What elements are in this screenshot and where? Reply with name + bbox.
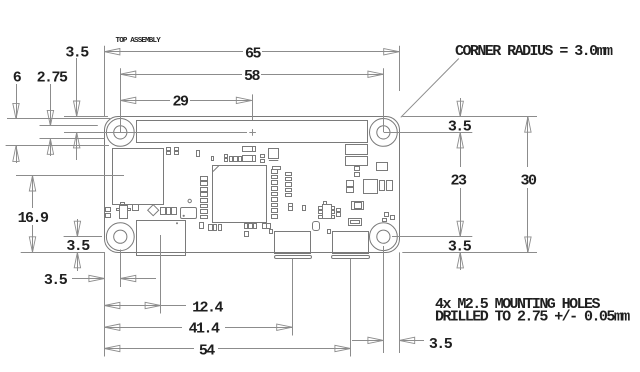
USB power connector flange (332, 256, 370, 259)
crystal X1 (352, 202, 364, 210)
dim 3.5 top-right upper arrow (460, 98, 462, 117)
extension line: left hole centre above board (120, 68, 122, 132)
capacitor pill (313, 222, 320, 231)
camera connector rects right of header (346, 145, 368, 155)
svg-text:6: 6 (13, 70, 22, 87)
extension line: board bottom edge, right (402, 252, 537, 254)
dim 12.4 line (104, 305, 160, 307)
extension line: SD slot 16.9 reference (16, 175, 124, 177)
right-hand component column parts (355, 167, 360, 171)
dim 65 line (104, 51, 243, 53)
svg-text:DRILLED TO 2.75 +/- 0.05mm: DRILLED TO 2.75 +/- 0.05mm (435, 308, 630, 325)
passives below header left (167, 148, 171, 151)
mounting hole top-left (M2.5, pad) (106, 118, 134, 146)
dim 16.9 line lower (32, 225, 34, 252)
extension line: bottom-right hole centre, right (392, 236, 472, 238)
dim 30 lower arrow (527, 188, 529, 252)
passive C near header (197, 151, 200, 157)
extension line: board bottom edge, left (21, 252, 105, 254)
small IC with pins below SD slot (120, 206, 128, 219)
svg-text:16.9: 16.9 (18, 210, 49, 227)
svg-text:29: 29 (173, 93, 189, 110)
extension line: bottom-left hole centre below board (120, 250, 122, 288)
extension line: 6mm pad bottom tangent (6, 145, 109, 147)
GPIO header centre line / left hole centre line (64, 132, 247, 134)
dim 41.4 line (104, 327, 182, 329)
dim 3.5 right-hole-to-bottom arrow (460, 252, 462, 270)
diamond component D1 (148, 205, 159, 216)
U3 pin-1 dot (183, 215, 185, 217)
dim 2.75 lower arrow (50, 139, 52, 156)
svg-text:65: 65 (245, 45, 261, 62)
svg-text:12.4: 12.4 (192, 299, 223, 316)
pads below SoC right (289, 204, 293, 207)
dim 3.5 left-hole-to-bottom upper arrow (77, 219, 79, 237)
extension line: board right edge above board (399, 46, 401, 91)
three pads row left-centre (161, 208, 166, 215)
svg-text:2.75: 2.75 (37, 70, 68, 87)
GPIO header J8 outline (137, 121, 368, 143)
tiny passives left of test IC (106, 208, 111, 212)
dim 3.5 left-hole-to-bottom lower arrow (77, 252, 79, 271)
HDMI pin-1 dot (176, 222, 178, 224)
svg-text:3.5: 3.5 (44, 272, 68, 289)
board centre mark + (249, 132, 256, 134)
dim 2.75 upper arrow (50, 84, 52, 126)
capacitors C above SoC (243, 147, 256, 152)
passive square below SD (133, 205, 139, 211)
extension line: 2.75 hole bottom tangent (40, 138, 105, 140)
extension line: board centre above board (252, 94, 254, 120)
svg-text:54: 54 (199, 343, 215, 360)
USB data connector flange (275, 256, 312, 259)
passive row above SoC (225, 155, 228, 158)
dim 23 lower arrow (460, 188, 462, 237)
dim 3.5 bottom-left line (72, 278, 104, 280)
USB power connector J11 body (333, 232, 369, 254)
svg-text:3.5: 3.5 (65, 44, 89, 61)
extension line: bottom-left hole centre (64, 236, 102, 238)
IC U3 left-centre (181, 208, 197, 219)
extension line: 2.75 hole top tangent (40, 125, 98, 127)
SoC right pin pads (272, 170, 278, 174)
component below crystal (349, 219, 362, 226)
passives below SoC (200, 223, 204, 229)
fiducial ring (188, 199, 191, 202)
extension line: USB data centre below board (292, 259, 294, 336)
component square below top-right hole (377, 163, 388, 171)
corner radius leader line (401, 59, 459, 118)
tiny part below pill (328, 230, 331, 234)
dim 3.5 bottom-right line (352, 340, 383, 342)
extension line: bottom-right hole centre below board (383, 246, 385, 353)
extension line: board left edge above board (104, 46, 106, 117)
extension line: right hole centre, right (384, 132, 472, 134)
SoC left pin pads (201, 177, 208, 181)
dim 58 line (120, 74, 242, 76)
mounting hole bottom-right (M2.5, pad) (370, 223, 398, 251)
SOT IC U4 with pins (323, 205, 332, 219)
mini HDMI connector J7 body (137, 221, 186, 256)
svg-text:3.5: 3.5 (66, 238, 90, 255)
tiny pair right of U4 (337, 209, 341, 212)
dim 23 upper arrow (460, 132, 462, 167)
dim 16.9 line upper (32, 176, 34, 209)
dim 54 line (104, 348, 194, 350)
svg-text:CORNER RADIUS = 3.0mm: CORNER RADIUS = 3.0mm (455, 43, 613, 60)
svg-text:23: 23 (451, 172, 467, 189)
extension line: 6mm pad top tangent (7, 118, 110, 120)
dim 3.5 top-left upper arrow (76, 58, 78, 117)
dim 6 upper arrow (16, 84, 18, 119)
extension line: board top edge, left (64, 116, 108, 118)
dim 3.5 top-left lower arrow (76, 132, 78, 160)
PCB board outline 65x30mm, corner radius 3.0mm (105, 117, 400, 253)
micro SD card slot (113, 149, 164, 205)
mounting hole bottom-left (M2.5, pad) (106, 223, 134, 251)
extension line: HDMI centre below board (160, 235, 162, 314)
svg-text:30: 30 (521, 172, 537, 189)
SoC pin-1 chamfer (213, 166, 219, 172)
extension line: board top edge, right (402, 116, 537, 118)
component row mid-right (347, 181, 354, 187)
extension line: right hole centre above board (383, 68, 385, 132)
dim 29 line (120, 100, 170, 102)
passive pair above SoC right (261, 155, 265, 158)
tiny parts near bottom-right hole (385, 213, 389, 217)
dim 30 upper arrow (527, 117, 529, 167)
component square top-right of SoC (269, 149, 279, 159)
passive R near SoC top-left (212, 157, 214, 161)
extension line: board right edge below board (399, 252, 401, 353)
extension line: USB power centre below board (350, 259, 352, 357)
svg-text:58: 58 (244, 68, 260, 85)
svg-text:41.4: 41.4 (189, 321, 220, 338)
wide passive right of SoC (273, 167, 281, 170)
svg-text:3.5: 3.5 (429, 336, 453, 353)
svg-text:TOP ASSEMBLY: TOP ASSEMBLY (116, 37, 162, 45)
extension line: board left edge below board (104, 252, 106, 356)
mounting hole top-right (M2.5, pad) (370, 118, 398, 146)
dim 6 lower arrow (16, 146, 18, 163)
USB data connector J10 body (275, 232, 311, 254)
pad column right of SoC (286, 173, 292, 176)
SoC U1 (BCM2835) (213, 166, 267, 223)
